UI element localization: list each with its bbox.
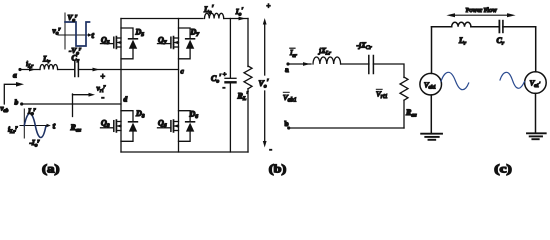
svg-text:a: a — [13, 71, 17, 80]
svg-text:-: - — [102, 93, 105, 102]
(b) inductor jX_Lr — [313, 57, 341, 64]
V_o' measurement arrow — [263, 18, 267, 148]
capacitor C_r — [75, 62, 79, 77]
svg-text:(a): (a) — [42, 162, 60, 176]
inset square-wave waveform v_o^r — [65, 22, 90, 46]
(b) wire a with arrow — [288, 62, 311, 66]
(c) top wire left segment — [432, 26, 452, 28]
(c) power flow double arrow — [446, 13, 515, 17]
svg-text:b: b — [285, 119, 289, 128]
(b) wire resistor to bottom — [403, 100, 405, 128]
MOSFET Q6 — [158, 120, 179, 132]
svg-text:d: d — [124, 95, 128, 104]
(b) capacitor -jX_Cr — [369, 56, 374, 74]
svg-text:Power Flow: Power Flow — [466, 7, 497, 14]
diode D8 — [121, 111, 137, 142]
bridge left leg — [120, 19, 122, 153]
(c) source V_ab1 circle — [420, 73, 442, 95]
inductor L_r — [40, 65, 58, 70]
(c) right branch wire down — [535, 27, 537, 72]
diode D5 — [121, 28, 137, 59]
(c) source V_o1' circle — [525, 72, 547, 94]
wire a with current arrow — [20, 68, 40, 72]
(c) top wire right segment — [503, 26, 536, 28]
(c) sine wave next to V_ab1 — [441, 72, 469, 89]
(b) bottom wire — [289, 127, 404, 129]
inductor L_o' — [205, 13, 224, 18]
MOSFET Q5 — [101, 37, 122, 49]
(b) current label I_sr with overline — [289, 48, 298, 59]
(c) right source to ground wire — [535, 93, 537, 133]
wire C_r to bridge with arrow — [78, 68, 178, 72]
(b) node a — [286, 62, 289, 65]
(b) V_ab1 label with overline — [283, 92, 297, 103]
resistor R_L' branch — [244, 19, 252, 153]
(c) left ground — [421, 134, 442, 140]
MOSFET Q8 — [101, 120, 122, 132]
wire L_r to C_r — [58, 69, 75, 71]
bridge top rail — [121, 18, 203, 20]
node b — [20, 102, 23, 105]
(c) inductor L_r — [452, 22, 471, 27]
(b) wire coil to cap — [341, 63, 369, 65]
svg-text:b: b — [15, 98, 19, 107]
svg-text:a: a — [285, 65, 289, 74]
bridge right leg — [178, 19, 180, 153]
(c) left branch wire down — [431, 27, 433, 74]
inset square-wave plot axes — [58, 13, 92, 49]
inset sine waveform i_Lr^r — [24, 114, 46, 138]
R_ac looking-in arrow — [73, 93, 96, 117]
bridge bottom rail — [121, 151, 248, 153]
(c) wire coil to cap — [471, 26, 499, 28]
svg-text:+: + — [267, 2, 271, 10]
(c) left source to ground wire — [430, 95, 432, 133]
wire L_o' to load with I_o' arrow — [224, 17, 248, 21]
inset sine plot axes — [20, 109, 51, 138]
node a — [18, 68, 21, 71]
wire b — [22, 103, 121, 105]
(c) right ground — [527, 133, 546, 139]
capacitor C_o' branch — [225, 19, 236, 153]
diode D6 — [179, 111, 195, 142]
svg-text:(b): (b) — [269, 162, 287, 176]
(c) sine wave next to V_o1' — [500, 72, 525, 88]
(b) wire cap to corner — [373, 64, 404, 78]
svg-text:(c): (c) — [494, 162, 512, 176]
(b) node b — [287, 126, 290, 129]
diode D7 — [179, 28, 195, 59]
(b) V_rt1 label with overline — [376, 89, 388, 100]
(b) resistor R_ac — [400, 77, 408, 100]
svg-text:+: + — [223, 72, 227, 79]
(c) capacitor C_r — [499, 21, 503, 33]
svg-text:+: + — [101, 72, 106, 81]
v_ab measurement bent arrow — [4, 82, 24, 104]
MOSFET Q7 — [158, 37, 179, 49]
